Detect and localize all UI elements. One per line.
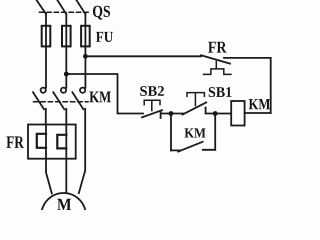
wire coil to right rail — [245, 112, 271, 114]
QS linkage dashed line — [40, 11, 89, 13]
wire L1 box to motor — [46, 159, 52, 194]
switch QS pole 1 blade — [37, 0, 46, 14]
node dot branch start — [169, 111, 174, 116]
SB2 actuator — [144, 100, 160, 110]
label SB1 — [209, 87, 232, 97]
node dot on L2 (control tap) — [64, 72, 69, 77]
fuse FU2 — [62, 26, 71, 47]
wire control tap upper from node on L3 — [85, 55, 201, 57]
wire L3 KM contact down to motor — [79, 109, 85, 193]
wire L1 inside box — [45, 125, 47, 159]
node dot branch end — [213, 111, 218, 116]
label KM (auxiliary contact) — [185, 128, 206, 137]
KM main contacts linkage dashed line — [34, 101, 89, 103]
motor M circle — [41, 193, 85, 237]
pushbutton SB2 NC contact — [142, 110, 169, 118]
label FR (contact) — [208, 42, 226, 53]
node dot on L3 (control tap) — [83, 54, 88, 59]
relay FR NC contact (control) — [201, 55, 230, 63]
SB1 actuator — [187, 93, 204, 106]
switch QS pole 3 blade — [76, 0, 85, 14]
fuse FU1 — [42, 26, 51, 47]
pushbutton SB1 NO contact — [183, 102, 232, 114]
KM branch right vertical — [214, 114, 216, 150]
fuse FU3 — [81, 26, 90, 47]
label SB2 — [140, 86, 164, 96]
contactor KM main contact 2 — [53, 88, 66, 110]
label FR (overload heater) — [6, 136, 23, 148]
label KM (main contacts) — [89, 92, 110, 103]
KM auxiliary NO contact — [171, 142, 215, 152]
wire L1 through fuse to KM contact — [45, 14, 47, 88]
wire L2 KM contact to FR box — [65, 109, 67, 125]
contactor KM main contact 1 — [33, 88, 46, 110]
switch QS pole 2 blade — [57, 0, 66, 14]
FR thermal element symbol — [204, 62, 232, 75]
label QS — [93, 6, 110, 20]
wire L3 through fuse to KM contact — [84, 14, 86, 88]
wire control tap lower from node on L2 — [66, 74, 143, 114]
wire L2 box to motor — [65, 159, 67, 193]
FR heater element phase 2 — [57, 135, 66, 149]
contactor coil KM — [231, 101, 244, 126]
KM self-holding branch left vertical — [170, 114, 172, 151]
wire L2 inside box — [65, 125, 67, 159]
FR contact right wire to rail — [224, 58, 271, 113]
junction node after SB2 — [169, 113, 184, 115]
label KM (coil) — [249, 99, 270, 109]
contactor KM main contact 3 — [72, 88, 85, 110]
label M (motor) — [57, 199, 71, 210]
FR heater element phase 1 — [37, 134, 46, 148]
wire L1 KM contact to FR box — [45, 109, 47, 125]
label FU — [96, 32, 113, 42]
wire L2 through fuse to KM contact — [65, 14, 67, 88]
thermal relay FR box — [28, 125, 76, 159]
